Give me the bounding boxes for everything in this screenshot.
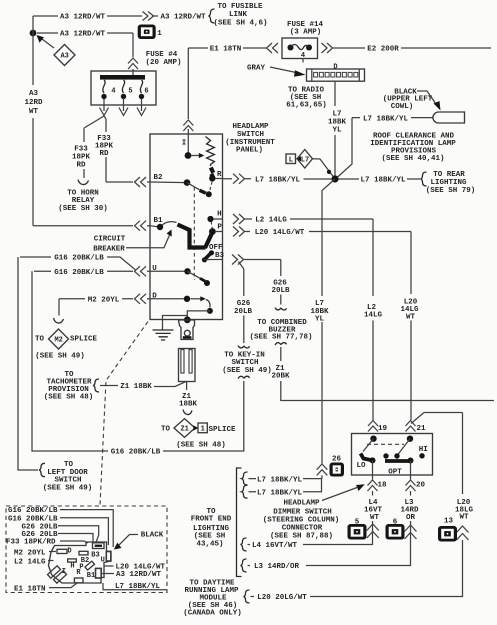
arrowhead (37, 35, 45, 43)
connector chevron term 18 (368, 480, 378, 491)
wire H to box edge (214, 218, 223, 220)
svg-text:H: H (217, 211, 222, 219)
svg-text:20: 20 (416, 482, 426, 490)
OPT contacts (383, 453, 388, 458)
svg-text:20LB: 20LB (271, 287, 290, 295)
dashed leader from switch box (100, 322, 148, 506)
wire L7 out + label L7 18BK/YL (right) (103, 583, 167, 590)
label A3 12RD/WT (right) (102, 573, 114, 575)
brace daytime (244, 590, 250, 603)
svg-text:(CANADA ONLY): (CANADA ONLY) (183, 609, 242, 617)
cavity H (68, 559, 77, 562)
connector chevron term 20 (406, 480, 416, 491)
svg-text:18BK: 18BK (328, 119, 347, 127)
svg-text:A3: A3 (60, 53, 68, 61)
svg-text:F33: F33 (74, 146, 88, 154)
svg-text:L3 14RD/OR: L3 14RD/OR (254, 563, 300, 571)
svg-text:(SEE SH 4,6): (SEE SH 4,6) (213, 19, 267, 27)
wire L20 (245, 232, 411, 421)
svg-text:B2: B2 (153, 174, 163, 182)
svg-text:(20 AMP): (20 AMP) (145, 59, 181, 67)
svg-text:1: 1 (201, 426, 205, 434)
resistor (dimmer rheostat) (206, 137, 215, 167)
connector chevron D (135, 294, 147, 304)
wire L7 from switch R (223, 178, 333, 180)
wire L4 stem (303, 491, 373, 545)
wire to cavity B3 (60, 541, 88, 543)
svg-text:14LG: 14LG (364, 312, 383, 320)
wire L7 tap 2 (249, 479, 322, 492)
svg-text:A3 12RD/WT: A3 12RD/WT (116, 571, 162, 579)
wire key-in down to G16 run (163, 381, 244, 451)
wire break curl M2 (54, 318, 64, 323)
contact arm HI (from 21) (398, 439, 411, 455)
svg-text:YL: YL (332, 127, 342, 135)
node U contact (204, 280, 210, 286)
svg-text:YL: YL (315, 315, 325, 323)
arrowhead to square (296, 156, 301, 161)
svg-text:(SEE SH 79): (SEE SH 79) (426, 187, 476, 195)
svg-text:M2 20YL: M2 20YL (88, 297, 120, 305)
svg-text:M2: M2 (54, 337, 62, 345)
wire key-in left vertical (32, 271, 108, 451)
connector chevron on A3 wire (143, 12, 154, 21)
wire E1 (188, 47, 266, 49)
connector chevron right of fuse 14 (322, 43, 333, 53)
svg-text:WT: WT (370, 514, 380, 522)
connector chevron term 21 (406, 421, 416, 432)
cavity P (85, 561, 94, 570)
svg-text:L7 18BK/YL: L7 18BK/YL (363, 115, 409, 123)
wire break curl to horn relay (78, 180, 89, 185)
node common ground (184, 316, 191, 323)
connector chevron L4 (367, 524, 379, 538)
svg-text:G26 20LB: G26 20LB (22, 523, 59, 531)
svg-text:R: R (217, 171, 222, 179)
dashed link H to P (211, 222, 212, 229)
fuse element pin 4 (103, 80, 105, 93)
svg-text:TO: TO (64, 461, 74, 469)
svg-text:1: 1 (157, 30, 162, 38)
svg-text:L7: L7 (332, 111, 341, 119)
wire E1 vertical to switch (187, 48, 189, 134)
fuse element pin 6 (140, 80, 142, 93)
svg-text:B1: B1 (87, 572, 95, 580)
svg-text:A3 12RD/WT: A3 12RD/WT (60, 31, 106, 39)
leader dimmer connector arrow (322, 488, 357, 501)
svg-text:HI: HI (419, 446, 428, 454)
wire to cavity I (49, 583, 77, 588)
connector chevron H exit (233, 214, 245, 224)
leader diamond A3 to junction (40, 38, 54, 49)
node term 19 (370, 436, 376, 442)
wire Z1 leader from tachometer (100, 382, 186, 387)
svg-text:A3 12RD/WT: A3 12RD/WT (160, 14, 206, 22)
fuse 4 box (91, 71, 156, 105)
wire to shell (48, 560, 54, 562)
wire break curl Z1 (183, 410, 192, 415)
lamp capsule symbol (433, 112, 465, 123)
wire G16 first (to left door) (20, 257, 136, 270)
svg-text:D: D (67, 548, 71, 556)
brace left door (39, 463, 45, 476)
svg-text:(SEE SH 77,78): (SEE SH 77,78) (249, 334, 312, 342)
svg-text:E2 200R: E2 200R (367, 46, 399, 54)
wire to cavity U (60, 518, 108, 545)
leader GRAY arrow (270, 67, 296, 73)
dimmer switch box (352, 434, 433, 476)
fuse 14 box (282, 38, 318, 59)
wire F33 to horn relay (84, 116, 104, 178)
connector chevron left of fuse 14 (267, 43, 279, 53)
svg-text:TO: TO (161, 425, 171, 433)
svg-text:RD: RD (76, 162, 86, 170)
contact arm D with arrow (191, 298, 202, 300)
wire stub + brace L3 (248, 565, 251, 567)
svg-text:SWITCH: SWITCH (231, 359, 258, 367)
wire L20 to bottom run (310, 540, 463, 597)
wire to ground (163, 316, 188, 330)
svg-text:FRONT END: FRONT END (191, 516, 232, 524)
svg-text:(SEE SH 40,41): (SEE SH 40,41) (381, 155, 444, 163)
rheostat contact bars (211, 168, 213, 173)
svg-text:LIGHTING: LIGHTING (430, 179, 467, 187)
node P (209, 228, 216, 235)
cavity B3 (93, 543, 105, 549)
node D contact (207, 308, 213, 314)
svg-text:DIMMER SWITCH: DIMMER SWITCH (273, 508, 332, 516)
wire into fuse 4 (132, 69, 134, 75)
wire L2 (245, 219, 373, 420)
wire A3 vertical (32, 16, 34, 226)
wire L7 trunk down (322, 179, 335, 464)
svg-text:F33 18PK/RD: F33 18PK/RD (6, 539, 56, 547)
svg-text:L20 20LG/WT: L20 20LG/WT (257, 594, 307, 602)
svg-text:L4 16VT/WT: L4 16VT/WT (252, 542, 298, 550)
cavity D (57, 549, 67, 553)
fuse 14 element (288, 45, 294, 51)
svg-text:I: I (182, 139, 187, 147)
svg-text:5: 5 (128, 88, 132, 96)
svg-text:L2 14LG: L2 14LG (14, 558, 46, 566)
node U (184, 268, 190, 274)
radio connector strip (307, 69, 365, 81)
contact arm B2 (187, 183, 200, 190)
wire radio pin down to L7 junction (334, 81, 336, 176)
leader circuit breaker (126, 235, 170, 248)
inline connector (receptacle) (179, 349, 196, 382)
connector chevron L3 (405, 525, 417, 539)
splice symbol A3 (54, 45, 75, 66)
svg-text:COWL): COWL) (391, 103, 414, 111)
wire B3 to buzzer corner (244, 260, 281, 277)
svg-text:A3: A3 (29, 90, 39, 98)
connector chevron on E1 vertical (183, 120, 193, 131)
leader L7 splice to junction (313, 159, 336, 179)
svg-text:B1: B1 (153, 217, 163, 225)
dashed link R to contact (210, 182, 212, 192)
svg-text:M2 20YL: M2 20YL (14, 549, 46, 557)
svg-text:OR: OR (406, 514, 416, 522)
splice ref square 1 (198, 423, 207, 433)
fuse 4 bus bar (100, 75, 145, 80)
wire B1 into box (147, 226, 160, 227)
ground (153, 330, 174, 340)
svg-text:L7 18BK/YL: L7 18BK/YL (257, 476, 303, 484)
dashed boundary box (6, 506, 167, 593)
svg-text:HEADLAMP: HEADLAMP (232, 123, 269, 131)
svg-text:RELAY: RELAY (72, 197, 95, 205)
connector chevron L7 trunk (317, 464, 328, 475)
svg-text:LO: LO (356, 462, 366, 470)
splice symbol M2 (49, 329, 69, 349)
wire L3 stem (306, 491, 411, 566)
svg-text:LINK: LINK (229, 11, 248, 19)
node LO out (370, 457, 376, 463)
svg-text:SPLICE: SPLICE (208, 426, 236, 434)
brace tap1 (242, 472, 248, 485)
wire break squiggle (buzzer bottom) (275, 343, 287, 345)
svg-text:L20 14LG/WT: L20 14LG/WT (255, 229, 305, 237)
brace rear lighting (421, 172, 427, 186)
svg-text:FUSE #4: FUSE #4 (146, 51, 178, 59)
svg-text:(SEE SH 49): (SEE SH 49) (222, 367, 272, 375)
node H (207, 216, 213, 222)
svg-text:L7 18BK/YL: L7 18BK/YL (360, 177, 406, 185)
connector chevron U (135, 266, 147, 276)
contact curve D (206, 300, 210, 308)
connector chevron R exit (233, 174, 245, 184)
svg-text:18PK: 18PK (72, 154, 91, 162)
node A3 junction (30, 30, 37, 37)
contact B3 (thick) (205, 253, 211, 259)
svg-text:CIRCUIT: CIRCUIT (94, 236, 126, 244)
switch U1 box (150, 134, 223, 320)
svg-text:A3 12RD/WT: A3 12RD/WT (60, 14, 106, 22)
wire to cavity B3 (58, 534, 93, 543)
wire U inside (147, 270, 186, 272)
svg-text:L7 18BK/YL: L7 18BK/YL (115, 583, 161, 591)
wire A3 top run (33, 15, 158, 17)
node D (184, 296, 190, 302)
connector chevron B2 (135, 177, 147, 187)
wiper arm from I with arrowhead (191, 155, 200, 157)
connector plug (switch pigtail) (179, 320, 195, 340)
node HI contact (419, 453, 424, 458)
node I (185, 152, 192, 159)
svg-text:U: U (152, 265, 157, 273)
svg-text:BLACK: BLACK (141, 532, 164, 540)
svg-text:20BK: 20BK (271, 372, 290, 380)
splice symbol Z1 (174, 419, 195, 438)
wire Z1 below receptacle (186, 382, 188, 391)
wire break squiggle (buzzer top) (275, 308, 287, 310)
wire B3 jog to key-in (239, 262, 244, 344)
svg-text:G16 20BK/LB: G16 20BK/LB (54, 269, 104, 277)
svg-text:4: 4 (111, 88, 115, 96)
wire I stem (187, 134, 189, 156)
svg-text:L7: L7 (301, 156, 309, 164)
connector icon 1 (138, 25, 156, 40)
connector chevron B3 exit (232, 255, 244, 265)
connector shell outline (49, 542, 111, 583)
svg-text:CONNECTOR: CONNECTOR (282, 525, 323, 533)
wire R to box edge (215, 178, 223, 180)
fuse element pin 5 (122, 80, 124, 93)
svg-text:(INSTRUMENT: (INSTRUMENT (225, 139, 275, 147)
wire cowl drop to junction (336, 118, 352, 179)
svg-text:61,63,65): 61,63,65) (286, 102, 327, 110)
svg-text:L: L (289, 157, 293, 165)
svg-text:(SEE SH 48): (SEE SH 48) (44, 394, 94, 402)
contact curve B1 (160, 222, 177, 227)
svg-text:OPT: OPT (388, 469, 402, 477)
svg-text:21: 21 (416, 425, 426, 433)
svg-text:L2 14LG: L2 14LG (255, 217, 287, 225)
cavity B1 (96, 568, 102, 578)
node R (209, 175, 215, 181)
wire stub to brace (251, 596, 255, 598)
wire A3 to B1 (33, 225, 133, 227)
svg-text:E1 18TN: E1 18TN (210, 46, 242, 54)
wire Z1 20BK drop (280, 347, 282, 361)
brace to fusible link (209, 9, 215, 23)
svg-text:43,45): 43,45) (196, 540, 223, 548)
wire P to box edge (215, 231, 223, 233)
svg-text:Z1: Z1 (180, 426, 188, 434)
wire F33 to B2 (104, 116, 133, 182)
connector chevron vertical above fuse 4 (128, 58, 138, 69)
svg-text:WT: WT (29, 108, 39, 116)
wire break squiggle (key-in bottom) (238, 376, 250, 378)
wire B3 to box edge (205, 259, 223, 261)
dashed actuator link (367, 443, 404, 445)
pin stems and cavity arrows (104, 99, 142, 111)
svg-text:WT: WT (459, 514, 469, 522)
cavity R (74, 578, 83, 583)
svg-text:(STEERING COLUMN): (STEERING COLUMN) (263, 517, 340, 525)
connector chevron P exit (233, 227, 245, 237)
node B1 (157, 224, 163, 230)
svg-text:RD: RD (99, 150, 109, 158)
svg-text:L7 18BK/YL: L7 18BK/YL (257, 490, 303, 498)
svg-text:TO FUSIBLE: TO FUSIBLE (217, 3, 263, 11)
svg-text:12RD: 12RD (24, 99, 43, 107)
splice symbol L7 (297, 150, 313, 169)
wire stub + brace L4 (248, 544, 251, 546)
wire term 20 (410, 461, 412, 480)
svg-text:18BK: 18BK (179, 400, 198, 408)
svg-text:G16 20BK/LB: G16 20BK/LB (8, 515, 58, 523)
svg-text:WT: WT (406, 314, 416, 322)
brace tap2 (242, 485, 248, 498)
svg-text:6: 6 (144, 88, 148, 96)
splice ref square L (286, 154, 296, 164)
svg-text:(SEE SH 49): (SEE SH 49) (43, 485, 93, 493)
wire E2 (333, 47, 491, 49)
wire L7 to capsule (352, 117, 433, 119)
node L7 junction (331, 175, 338, 182)
svg-text:TO: TO (35, 336, 45, 344)
cavity I (double) (47, 566, 60, 578)
svg-text:P: P (217, 224, 222, 232)
wire G16 second (to key-in) (34, 270, 133, 272)
wire L7 tap 1 (249, 475, 323, 478)
wire break squiggle (key-in top) (238, 346, 250, 348)
svg-text:TO REAR: TO REAR (433, 171, 465, 179)
wire M2 (59, 298, 133, 300)
wire to buzzer brace (280, 295, 282, 305)
wire A3 second run to connector 1 (37, 33, 133, 57)
dashed actuator line (193, 187, 195, 280)
wiper arm (thick, OFF position) (178, 225, 213, 249)
connector chevron term 19 (368, 421, 378, 432)
pin contact dots (101, 94, 106, 99)
svg-text:GRAY: GRAY (247, 64, 266, 72)
svg-text:26: 26 (332, 456, 342, 464)
wire term 18 (372, 460, 374, 479)
svg-text:18: 18 (377, 482, 387, 490)
leader BLACK arrow (119, 535, 138, 546)
svg-text:BREAKER: BREAKER (93, 246, 125, 254)
svg-text:HEADLAMP: HEADLAMP (283, 500, 320, 508)
svg-text:H: H (70, 562, 74, 570)
svg-text:L7 18BK/YL: L7 18BK/YL (255, 177, 301, 185)
wire B2 into box (147, 181, 187, 184)
svg-text:(SEE SH 30): (SEE SH 30) (58, 205, 108, 213)
arrowhead to square 1 (193, 425, 198, 430)
svg-text:PANEL): PANEL) (236, 147, 263, 155)
svg-text:SWITCH: SWITCH (54, 477, 81, 485)
svg-text:20LB: 20LB (234, 308, 253, 316)
wire D inside (147, 298, 185, 300)
svg-text:I: I (62, 568, 66, 576)
wire to cavity B3 (58, 526, 99, 543)
bracket front end lighting (237, 468, 242, 577)
contact arm U (188, 271, 201, 278)
cavity U (106, 552, 111, 562)
cavity B2 (79, 551, 88, 555)
strip cavities (314, 72, 358, 77)
wire to cavity U (60, 510, 113, 547)
svg-text:(3 AMP): (3 AMP) (290, 29, 322, 37)
connector chevron L20 lower (457, 526, 469, 540)
svg-text:(SEE SH 49): (SEE SH 49) (35, 353, 85, 361)
svg-text:19: 19 (378, 425, 388, 433)
svg-text:G16 20BK/LB: G16 20BK/LB (54, 255, 104, 263)
svg-text:B3: B3 (91, 551, 99, 559)
wire L20 branch jog to daytime module (411, 413, 463, 495)
svg-text:(SEE SH 48): (SEE SH 48) (176, 441, 226, 449)
wire left-door vertical (18, 257, 38, 470)
svg-text:SPLICE: SPLICE (70, 336, 98, 344)
node B2 contact (206, 191, 212, 197)
label L20 14LG/WT (right) (105, 565, 114, 567)
svg-text:13: 13 (444, 518, 454, 526)
wire to cavity D (49, 551, 56, 553)
svg-text:LIGHTING: LIGHTING (193, 525, 230, 533)
node B2 (184, 179, 191, 186)
contact arm LO (363, 439, 374, 452)
svg-text:U: U (101, 557, 105, 565)
svg-text:(SEE SH 87,88): (SEE SH 87,88) (270, 533, 333, 541)
wire L7 to rear lighting (339, 178, 421, 180)
svg-text:G16 20BK/LB: G16 20BK/LB (111, 449, 161, 457)
connector chevron B1 (135, 221, 147, 231)
svg-text:E1 18TN: E1 18TN (14, 585, 46, 593)
node term 21 (407, 436, 413, 442)
leader BLACK arrow to capsule (417, 91, 437, 106)
